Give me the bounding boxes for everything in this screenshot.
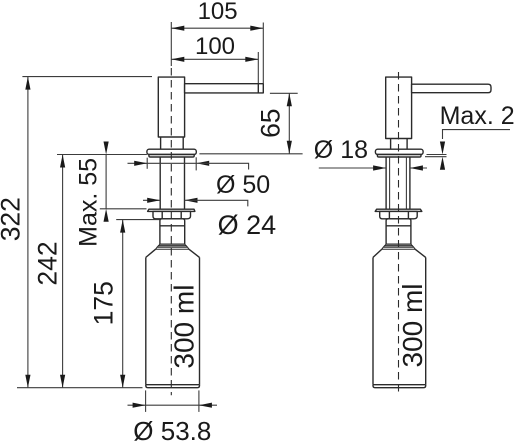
adapter tube xyxy=(160,219,185,244)
datum line xyxy=(17,387,143,389)
svg-text:242: 242 xyxy=(33,241,63,285)
threaded shaft xyxy=(160,157,184,209)
dim Max 55 xyxy=(74,142,108,247)
centerline left view xyxy=(170,68,172,395)
ext line counter left xyxy=(57,154,147,156)
shaft side inner thread xyxy=(390,157,407,209)
bottle shoulder xyxy=(146,249,200,257)
flange xyxy=(147,149,196,154)
ext line spout bottom right xyxy=(270,92,298,94)
dim 322 xyxy=(0,77,31,388)
neck side xyxy=(391,139,408,150)
bottle coupling rings xyxy=(156,244,189,249)
dim 100 xyxy=(171,33,258,62)
svg-text:105: 105 xyxy=(198,0,238,25)
pump head xyxy=(158,77,184,137)
svg-text:Ø 18: Ø 18 xyxy=(314,136,368,164)
bottle base xyxy=(146,385,200,388)
centerline right view xyxy=(398,72,400,395)
ext line head top left xyxy=(22,76,152,78)
ext line nut top xyxy=(100,208,147,210)
dim Ø 24 xyxy=(143,198,276,240)
svg-text:Ø 24: Ø 24 xyxy=(218,210,277,240)
shaft side outer xyxy=(386,157,410,209)
dim Max 2 xyxy=(425,102,515,170)
washer side xyxy=(375,209,422,211)
pump head side xyxy=(386,77,412,138)
bottle shoulder side xyxy=(373,249,426,257)
svg-text:Ø 50: Ø 50 xyxy=(216,171,270,199)
flange lip side xyxy=(377,155,421,158)
neck xyxy=(161,137,184,149)
ext line nut bottom xyxy=(116,219,159,221)
bottle body xyxy=(146,257,200,384)
ext line counter right xyxy=(199,153,302,155)
svg-text:Max. 55: Max. 55 xyxy=(74,158,102,247)
svg-text:100: 100 xyxy=(195,33,235,60)
hex nut xyxy=(153,211,191,218)
bottle base side xyxy=(373,385,426,388)
svg-text:175: 175 xyxy=(89,281,119,325)
ext line spout cap xyxy=(257,52,259,83)
coupling rings side xyxy=(382,244,415,249)
dim 242 xyxy=(33,155,66,388)
svg-text:65: 65 xyxy=(256,108,286,137)
svg-text:300 ml: 300 ml xyxy=(397,283,428,367)
flange side xyxy=(375,149,423,154)
dim 105 xyxy=(171,0,263,31)
dim Ø 50 xyxy=(128,157,271,199)
300 ml label left xyxy=(169,285,200,369)
adapter tube side xyxy=(386,219,411,244)
svg-text:322: 322 xyxy=(0,197,26,241)
flange lip xyxy=(149,155,194,158)
dim 175 xyxy=(89,220,126,388)
300 ml label right xyxy=(397,283,428,367)
svg-text:Max. 2: Max. 2 xyxy=(440,102,515,130)
dim 65 xyxy=(256,93,292,154)
dim Ø 18 xyxy=(314,136,427,170)
svg-text:300 ml: 300 ml xyxy=(169,285,200,369)
ext line center top xyxy=(170,22,172,66)
hex nut side xyxy=(380,211,418,218)
spout side xyxy=(412,84,491,93)
bottle body side xyxy=(373,257,426,384)
svg-text:Ø 53.8: Ø 53.8 xyxy=(133,416,211,445)
ext line spout tip xyxy=(262,23,264,84)
dim Ø 53.8 xyxy=(128,390,218,445)
washer under counter xyxy=(148,209,195,211)
spout xyxy=(185,84,264,93)
